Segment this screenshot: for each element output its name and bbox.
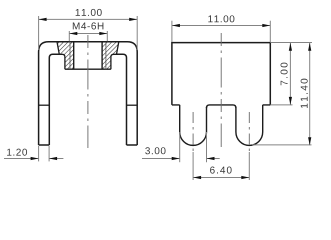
left solder leg with rounded bottom xyxy=(180,105,207,145)
right view body outline xyxy=(172,43,270,105)
right view vertical centerline xyxy=(220,33,222,147)
extension line body bottom right xyxy=(270,104,292,106)
left leg bottom edge xyxy=(39,144,50,146)
dimension 3.00: extension line left (leg edge extended) xyxy=(179,132,181,162)
bushing outline left side xyxy=(57,42,65,69)
left view vertical centerline xyxy=(87,35,89,148)
dimension 3.00: text label xyxy=(145,147,165,154)
left wall inner face and cavity underside xyxy=(49,54,59,145)
dimension 6.40: left arrowhead xyxy=(193,176,201,179)
dimension 6.40: right arrowhead xyxy=(241,176,249,179)
dimension 11.40: rotated text label xyxy=(301,79,308,108)
dimension 6.40: text label xyxy=(210,167,232,174)
dimension 11.00 left view: text label xyxy=(76,9,102,16)
extension line top right (body top extended) xyxy=(270,42,312,44)
thread callout M4-6H: extension line right xyxy=(106,31,108,41)
hatched bushing section right region xyxy=(102,42,119,69)
dimension 1.20: left arrowhead outside xyxy=(31,157,39,160)
dimension 1.20: extension line right xyxy=(48,146,50,161)
dimension 1.20: right arrowhead outside xyxy=(49,157,57,160)
dimension 7.00: bottom arrowhead xyxy=(289,97,292,105)
right body-to-leg step line xyxy=(127,104,138,106)
dimension 1.20: dimension line with tails xyxy=(4,158,63,160)
right leg centerline xyxy=(248,112,250,152)
dimension 3.00: left arrowhead outside xyxy=(172,157,180,160)
extension line leg bottom right xyxy=(252,144,312,146)
dimension 11.40: bottom arrowhead xyxy=(308,137,311,145)
dimension 1.20: extension line left xyxy=(38,146,40,161)
dimension 11.40: top arrowhead xyxy=(308,43,311,51)
dimension 11.00 right view: text label xyxy=(208,15,234,22)
dimension 3.00: dimension line with tails xyxy=(142,158,220,160)
left leg centerline xyxy=(192,112,194,152)
right leg bottom edge xyxy=(127,144,138,146)
dimension 7.00: rotated text label xyxy=(281,63,288,86)
dimension 1.20: text label xyxy=(7,149,27,156)
bushing bottom edge xyxy=(65,68,111,70)
dimension 11.00 left view: extension line left xyxy=(38,16,40,50)
dimension 11.00 right view: extension line left xyxy=(171,21,173,42)
thread major diameter thin line right xyxy=(105,42,107,69)
right wall inner face and cavity underside xyxy=(117,54,127,145)
dimension 6.40: extension line right (leg centerline extended) xyxy=(248,152,250,180)
threaded hole right wall xyxy=(101,42,103,69)
dimension 6.40: dimension line xyxy=(193,177,249,179)
left body-to-leg step line xyxy=(39,104,50,106)
dimension 11.00 left view: left arrowhead xyxy=(39,18,47,21)
thread callout M4-6H: right arrowhead xyxy=(99,32,107,35)
left view outer body outline with rounded top corners xyxy=(39,42,138,145)
threaded hole left wall xyxy=(73,42,75,69)
dimension 6.40: extension line left (leg centerline extended) xyxy=(192,152,194,180)
dimension 11.00 left view: right arrowhead xyxy=(129,18,137,21)
dimension 11.00 left view: dimension line xyxy=(39,18,138,20)
dimension 7.00: top arrowhead xyxy=(289,43,292,51)
thread callout M4-6H: text label xyxy=(73,22,104,29)
dimension 11.00 right view: dimension line xyxy=(172,25,270,27)
thread callout M4-6H: dimension line xyxy=(69,33,107,35)
dimension 11.00 right view: right arrowhead xyxy=(262,24,270,27)
dimension 11.00 right view: left arrowhead xyxy=(172,24,180,27)
dimension 11.40: dimension line xyxy=(309,43,311,146)
right view body bottom edge segments xyxy=(172,105,270,108)
dimension 7.00: dimension line xyxy=(289,43,291,105)
thread callout M4-6H: extension line left xyxy=(68,31,70,41)
right solder leg with rounded bottom xyxy=(236,105,263,146)
thread callout M4-6H: left arrowhead xyxy=(69,32,77,35)
bushing outline right side xyxy=(111,42,119,69)
dimension 3.00: extension line right (leg edge extended) xyxy=(206,132,208,162)
dimension 11.00 right view: extension line right xyxy=(269,21,271,42)
dimension 11.00 left view: extension line right xyxy=(136,16,138,50)
thread major diameter thin line left xyxy=(69,42,71,69)
dimension 3.00: right arrowhead outside xyxy=(207,157,215,160)
hatched bushing section left region xyxy=(57,42,74,69)
